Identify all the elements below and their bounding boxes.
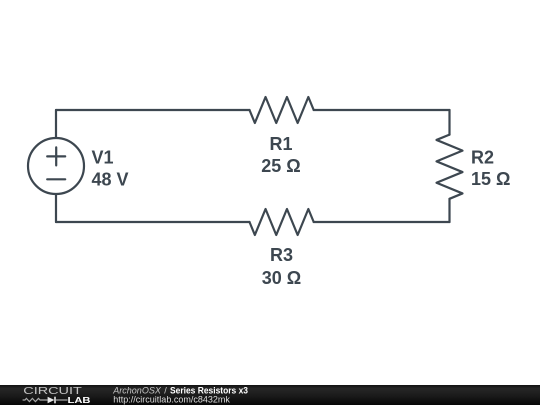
svg-text:15 Ω: 15 Ω — [471, 169, 510, 189]
footer bar — [0, 385, 540, 405]
wire top-left vertical (V1 top lead) — [55, 110, 57, 138]
svg-text:30 Ω: 30 Ω — [262, 268, 301, 288]
svg-text:LAB: LAB — [68, 395, 91, 405]
wire bottom horizontal right segment — [314, 221, 450, 223]
V1 plus sign — [47, 147, 65, 165]
resistor R1 zigzag — [250, 97, 314, 123]
wire top horizontal left segment — [56, 109, 250, 111]
V1 minus sign — [47, 178, 65, 180]
wire top horizontal right segment — [314, 109, 450, 111]
wire right vertical lower (R2 bottom lead) — [448, 199, 450, 222]
resistor R2 zigzag — [437, 135, 463, 199]
voltage source V1 circle — [28, 138, 84, 194]
svg-text:25 Ω: 25 Ω — [261, 156, 300, 176]
wire: top rail with R1 zigzag inline — [28, 97, 463, 235]
wire bottom horizontal left segment — [56, 221, 250, 223]
logo diode triangle — [48, 397, 55, 404]
resistor R3 zigzag — [250, 209, 314, 235]
svg-text:R1: R1 — [269, 134, 292, 154]
svg-text:R2: R2 — [471, 148, 494, 168]
svg-text:R3: R3 — [270, 245, 293, 265]
wire bottom-left vertical (V1 bottom lead) — [55, 194, 57, 222]
logo wire to LAB — [56, 399, 68, 401]
logo wire with resistor zigzag — [23, 398, 48, 401]
svg-text:http://circuitlab.com/c8432mk: http://circuitlab.com/c8432mk — [113, 394, 230, 404]
svg-text:48 V: 48 V — [92, 170, 129, 190]
logo diode bar — [54, 397, 56, 404]
wire right vertical upper (R2 top lead) — [448, 110, 450, 135]
svg-text:V1: V1 — [92, 148, 114, 168]
